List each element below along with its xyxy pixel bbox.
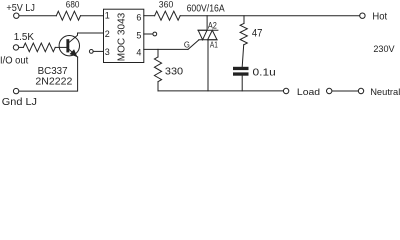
node Neutral terminal <box>358 88 363 93</box>
resistor 47 <box>240 16 247 67</box>
svg-text:A1: A1 <box>210 40 218 50</box>
svg-text:2N2222: 2N2222 <box>35 76 72 87</box>
resistor 330 <box>154 49 161 91</box>
svg-text:Load: Load <box>297 86 320 97</box>
transistor Q1 <box>59 33 79 57</box>
resistor 360 <box>155 11 181 20</box>
svg-text:5: 5 <box>136 30 141 40</box>
svg-text:1: 1 <box>105 11 110 21</box>
svg-text:0.1u: 0.1u <box>253 67 276 78</box>
svg-text:2: 2 <box>105 29 110 39</box>
node Load terminal <box>283 88 288 93</box>
node Hot terminal <box>360 13 365 18</box>
svg-text:360: 360 <box>159 0 174 11</box>
node Gnd terminal <box>13 88 18 93</box>
wire I/O to R 1.5K <box>19 46 23 48</box>
node I/O out terminal <box>13 45 18 50</box>
svg-text:A2: A2 <box>208 20 217 30</box>
svg-text:Gnd LJ: Gnd LJ <box>2 96 37 105</box>
svg-text:4: 4 <box>136 47 141 57</box>
capacitor C1 0.1u <box>233 67 249 91</box>
svg-text:3: 3 <box>105 47 110 57</box>
wire gate diagonal <box>188 40 199 50</box>
svg-text:330: 330 <box>165 67 183 78</box>
wire collector to pin 2 <box>78 32 104 34</box>
svg-text:Hot: Hot <box>372 11 387 22</box>
wire pin 4 gate <box>144 48 188 50</box>
wire Gnd to emitter <box>19 57 78 91</box>
svg-text:680: 680 <box>66 0 80 10</box>
svg-text:600V/16A: 600V/16A <box>187 4 225 15</box>
wire pin 6 to R 360 <box>144 15 155 17</box>
resistor 1.5K <box>23 43 55 52</box>
resistor 680 <box>56 11 80 20</box>
wire load return to Neutral <box>332 90 358 92</box>
svg-text:I/O out: I/O out <box>0 56 28 67</box>
wire +5V to R 680 <box>19 15 56 17</box>
wire 1.5K to base <box>55 46 66 48</box>
svg-text:G: G <box>184 39 190 49</box>
node load return terminal <box>327 88 332 93</box>
svg-text:Neutral: Neutral <box>370 87 400 98</box>
wire 680 to pin 1 <box>81 15 104 17</box>
svg-text:MOC 3043: MOC 3043 <box>116 13 128 62</box>
svg-text:+5V LJ: +5V LJ <box>6 3 35 14</box>
node pin3 NC <box>89 50 103 54</box>
wire top rail to Hot <box>180 15 359 17</box>
wire bottom rail <box>158 90 283 92</box>
svg-text:1.5K: 1.5K <box>14 32 35 43</box>
node +5V terminal <box>14 13 19 18</box>
svg-text:230V: 230V <box>373 44 395 54</box>
node pin5 NC <box>144 32 157 36</box>
svg-text:6: 6 <box>136 12 141 22</box>
triac TR1 <box>198 16 218 91</box>
svg-text:47: 47 <box>252 28 263 40</box>
op-amp U1 MOC3043 box <box>104 9 144 62</box>
